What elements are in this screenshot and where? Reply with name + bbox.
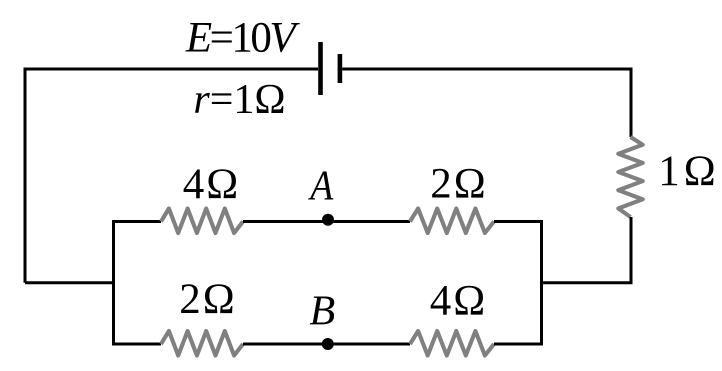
svg-text:2Ω: 2Ω — [179, 276, 236, 323]
svg-text:B: B — [309, 289, 335, 335]
resistor 1 ohm (right vertical zigzag) — [618, 137, 642, 217]
wire: right side below resistor down to right junction — [542, 217, 632, 283]
svg-text:4Ω: 4Ω — [183, 161, 240, 208]
svg-text:r=1Ω: r=1Ω — [193, 77, 285, 123]
resistor 4 ohm (upper left) — [161, 209, 243, 234]
resistor 4 ohm (lower right) — [410, 331, 494, 356]
wire: upper branch middle segment — [243, 220, 410, 223]
node A dot — [322, 214, 334, 226]
battery E long plate — [318, 42, 323, 95]
wire: top wire from battery right plate to top-right corner, down to resistor — [342, 69, 631, 137]
wire: upper branch left segment — [114, 220, 162, 223]
svg-text:E=10V: E=10V — [185, 15, 301, 62]
wire: left connector into parallel box — [25, 281, 114, 284]
svg-text:2Ω: 2Ω — [430, 161, 487, 208]
node B dot — [322, 338, 334, 350]
wire: lower branch right segment — [494, 343, 542, 346]
resistor 2 ohm (upper right) — [410, 209, 494, 234]
svg-text:A: A — [308, 164, 334, 210]
resistor 2 ohm (lower left) — [161, 331, 243, 356]
wire: lower branch left segment — [114, 343, 162, 346]
wire: top wire from battery left plate to top-left corner, down left side — [25, 69, 318, 283]
wire: parallel box left vertical — [112, 220, 115, 346]
svg-text:1Ω: 1Ω — [658, 148, 719, 195]
wire: lower branch middle segment — [243, 343, 410, 346]
battery E short plate — [338, 54, 343, 83]
wire: parallel box right vertical — [540, 220, 543, 346]
wire: upper branch right segment — [494, 220, 542, 223]
svg-text:4Ω: 4Ω — [430, 278, 487, 325]
